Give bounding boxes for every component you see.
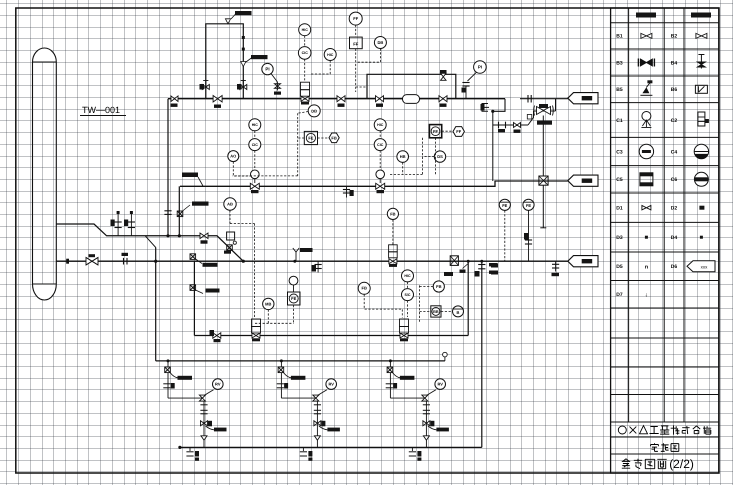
svg-text:FF: FF [433, 129, 438, 134]
control valve CV1 on M [301, 82, 310, 104]
label spec 4BX3/4B [537, 121, 552, 125]
svg-text:C4: C4 [671, 149, 678, 155]
vessel TW-001 [33, 48, 57, 300]
wire lower drain line [493, 124, 528, 126]
svg-text:D1: D1 [616, 206, 623, 212]
svg-text:D5: D5 [616, 264, 623, 270]
signal FEsq right [318, 137, 329, 139]
control valve CV5 on E [400, 319, 409, 341]
legend symbol C3 circle xxx [639, 144, 653, 158]
instrument HIC-4 [374, 119, 386, 131]
wire CV outlet drop x543 [542, 116, 544, 177]
signal SC down [407, 301, 409, 317]
control valve CV3 on C [376, 179, 385, 194]
legend symbol D4 dot [700, 236, 703, 239]
relief valve unit 2 [277, 359, 340, 460]
tick pair on B x125 [122, 253, 129, 265]
signal drop x254 to CV4 [254, 224, 256, 319]
flag spec on branch B1 [203, 263, 218, 267]
signal FFs down [356, 49, 367, 92]
svg-text:HIC: HIC [327, 53, 334, 57]
wire line F [178, 446, 482, 449]
spectacle blind on outlet [528, 95, 531, 103]
signal FElow down [293, 305, 295, 323]
wire line E [194, 335, 468, 337]
wire branch B to E x194 [193, 261, 195, 335]
svg-text:FB: FB [436, 284, 441, 289]
valve45 on branch B1 [190, 254, 202, 264]
svg-text:xxx: xxx [701, 264, 709, 269]
signal BB right [441, 310, 453, 312]
signal FFc-FFs [355, 25, 357, 37]
instrument CIC-3 [374, 139, 386, 151]
instrument HIC-5 [402, 270, 414, 282]
legend symbol C2 tower [698, 112, 709, 126]
title company name [618, 425, 711, 434]
wire drop below box x543 [540, 185, 546, 228]
control valve main outlet [534, 104, 554, 116]
instrument FB on line B [387, 208, 398, 219]
instrument FB hexagon [329, 133, 339, 143]
legend header blobs [636, 13, 711, 18]
signal riser x419 [419, 285, 421, 322]
svg-text:C5: C5 [616, 177, 623, 183]
signal FFsq down [435, 138, 437, 175]
svg-text:FE: FE [526, 203, 531, 208]
drain ticks below B x318 [312, 261, 322, 272]
wire outlet up [555, 99, 557, 111]
actuator ball CV3 [376, 170, 385, 179]
wire riser C to A [178, 186, 180, 236]
signal FFsq-FFhex [442, 130, 453, 132]
instrument HIC-3 [249, 119, 261, 131]
legend symbol D7 anchor [645, 292, 648, 298]
wire branch slant to D riser [145, 236, 156, 248]
control valve CV2 on C [250, 179, 259, 194]
vent ticks below line C [343, 186, 354, 197]
signal across y311 [420, 310, 431, 312]
valve G3O on line A [200, 233, 208, 244]
off-page connector drain [568, 175, 598, 186]
title reference drawing [622, 457, 694, 471]
wire riser B to F x482 [480, 260, 483, 448]
wire PI-1 tap [271, 74, 278, 83]
instrument CIC-1 [298, 47, 311, 60]
gate valve 1B on M [213, 95, 222, 107]
signal across y286 [420, 286, 434, 288]
signal DS left [422, 156, 434, 158]
valve with stem on riser left [200, 81, 210, 90]
legend table grid [611, 8, 719, 473]
svg-text:HB: HB [400, 154, 406, 159]
flag spec MBX3-4B on C [182, 173, 203, 187]
valve on drain x517 [514, 123, 521, 133]
signal DB1 path [356, 49, 380, 63]
svg-text:PI: PI [478, 65, 482, 70]
valve on M near left end [171, 96, 179, 107]
svg-text:CIC: CIC [377, 143, 384, 147]
instrument CIC-2 [249, 139, 261, 151]
legend symbol C1 sphere stand [641, 112, 651, 128]
wire funnel stub [293, 248, 313, 263]
signal across y323 [255, 322, 294, 324]
valve45 on branch B2 [190, 285, 203, 294]
junction box GB on B [444, 256, 458, 276]
riser with ticks A2 [124, 211, 135, 236]
signal box small [227, 232, 237, 244]
valve on bypass top [440, 70, 447, 80]
valve with stem on riser right [237, 81, 247, 90]
instrument FB circle mid [358, 282, 370, 294]
svg-text:DB: DB [311, 108, 317, 113]
block ticks on riser 168 [164, 211, 171, 215]
wire outlet to flag [520, 98, 568, 100]
flag slant to riser 468 [460, 264, 469, 273]
wire line B [56, 259, 568, 264]
instrument FE dome 1 [499, 199, 510, 210]
relief valve unit 1 [163, 359, 226, 460]
actuator ball above FE low [289, 276, 298, 292]
valve on E x217 [210, 330, 221, 342]
instrument FF circle [349, 12, 362, 25]
wire main pipe line M [168, 98, 505, 100]
legend symbol D1 small valve [642, 205, 651, 210]
valve on M x379 [376, 96, 384, 107]
wire riser M to A [167, 99, 169, 236]
instrument FF bold square [429, 125, 441, 138]
drain ticks near flag3 [552, 261, 560, 276]
signal CIC1-valve [304, 59, 306, 81]
legend row labels [616, 34, 677, 298]
svg-text:D2: D2 [671, 206, 678, 212]
instrument FE square mid [304, 131, 317, 144]
instrument OB circle [453, 306, 464, 317]
tick on riser x243 b [242, 48, 245, 51]
svg-text:FB: FB [390, 211, 395, 216]
junction dot B-156 [154, 260, 157, 263]
signal HIC2-CV1 [310, 61, 331, 75]
signal dashed riser x297 [297, 113, 299, 176]
control valve on line B x393 [389, 245, 398, 267]
signal FB down to valve [392, 220, 394, 245]
flag spec on branch B2 [206, 289, 220, 293]
svg-text:C3: C3 [616, 149, 623, 155]
instrument PI-2 [474, 61, 487, 74]
svg-text:C6: C6 [671, 177, 678, 183]
svg-text:DB: DB [378, 40, 384, 45]
valve on M x341 [337, 96, 345, 107]
signal HIC1-CIC1 [304, 36, 306, 47]
svg-text:FF: FF [456, 129, 461, 134]
off-page connector product [568, 93, 598, 104]
root valve PI-2 [462, 83, 470, 99]
root valve PI-1 [274, 82, 281, 95]
instrument FF square [350, 37, 363, 49]
svg-text:HIC: HIC [404, 274, 411, 278]
svg-text:FF: FF [353, 41, 359, 46]
signal AB down [229, 210, 231, 223]
valve on M x443 [439, 96, 447, 107]
svg-text:B4: B4 [671, 60, 678, 66]
wire PI-2 tap [468, 72, 477, 81]
signal CIC2-ball [254, 151, 256, 170]
label TW-001 [80, 105, 126, 116]
legend symbol B1 valve [641, 33, 652, 38]
wire drain drop x492 [492, 111, 494, 125]
inline element left of step [481, 104, 490, 112]
flag specs near riser 482 [491, 264, 498, 275]
svg-text:AO: AO [230, 154, 236, 159]
svg-text:BB: BB [433, 310, 439, 314]
signal DB2 left [298, 112, 309, 114]
block valve pair on drain [498, 122, 506, 133]
wire drain drop x493 [492, 125, 494, 181]
junction dot A-179 [178, 234, 181, 237]
svg-text:RV: RV [328, 382, 334, 387]
instrument FE square low [288, 292, 301, 305]
instrument FE dome 2 [523, 199, 534, 210]
svg-text:D6: D6 [671, 264, 678, 270]
instrument SC circle [402, 289, 414, 301]
instrument AO [228, 151, 239, 162]
legend symbol B6 check valve [695, 85, 707, 93]
relief valve unit 3 [386, 359, 449, 460]
valve45 on riser 179 [177, 205, 190, 217]
wire line A [56, 224, 243, 261]
flag spec MBX3-4B riser [192, 202, 209, 206]
signal FEsq left [298, 137, 305, 139]
legend symbol D2 mark [699, 206, 704, 210]
legend symbol B3 flanged valve [638, 59, 654, 67]
legend symbol B4 vertical valve [697, 55, 705, 69]
instrument AB circle [224, 198, 236, 210]
svg-text:D3: D3 [616, 235, 623, 241]
flag spec H8X3/4B [225, 11, 251, 24]
svg-text:CIC: CIC [302, 51, 309, 55]
svg-text:(2/2): (2/2) [669, 457, 694, 471]
junction dot M drain [491, 110, 494, 113]
svg-text:C1: C1 [616, 118, 623, 124]
svg-text:HIC: HIC [302, 28, 309, 32]
legend symbol D5 n mark [645, 264, 649, 270]
signal HB down [402, 162, 404, 174]
junction box on line C [539, 176, 548, 185]
svg-text:FE: FE [291, 296, 296, 301]
signal HIC4-CIC3 [379, 131, 381, 139]
control valve CV4 on E [252, 319, 261, 341]
svg-text:C2: C2 [671, 118, 678, 124]
tick on riser x243 a [242, 36, 245, 39]
signal across y174 [390, 174, 422, 176]
wire riser A to D x156 [155, 247, 157, 361]
instrument HIC-1 [299, 24, 311, 36]
wire riser B to E x468 [467, 260, 470, 336]
svg-text:FB: FB [331, 135, 336, 140]
instrument HB circle [397, 151, 409, 163]
title kanseizu [651, 443, 679, 451]
gate valve on B at vessel [86, 254, 98, 265]
svg-text:AB: AB [227, 201, 233, 206]
instrument DB-1 [374, 37, 386, 49]
signal dashed across y176 [233, 175, 298, 177]
wire drain slant up [527, 111, 533, 125]
legend symbol B5 angle valve [640, 80, 652, 95]
valve45 on slant AB [224, 245, 232, 254]
wire line C [180, 181, 568, 186]
wire FE2 down [524, 210, 532, 261]
signal MB down [267, 310, 269, 324]
off-page connector atmosphere [568, 256, 598, 267]
actuator ball CV2 [251, 170, 260, 179]
wire line D [156, 360, 445, 362]
wire M step down [493, 99, 505, 112]
signal CIC3-ball [379, 151, 381, 170]
legend symbol D3 dot [645, 236, 648, 239]
vent stub end of D [443, 352, 448, 361]
svg-text:HIC: HIC [377, 123, 384, 127]
svg-text:B2: B2 [671, 34, 678, 40]
svg-text:B5: B5 [616, 87, 623, 93]
wire vent riser left [206, 24, 244, 99]
wire valve line y111 [534, 110, 556, 112]
svg-text:FF: FF [353, 16, 358, 21]
legend symbol C5 hatch square [640, 173, 653, 186]
svg-text:D7: D7 [616, 292, 623, 298]
svg-text:RV: RV [437, 382, 443, 387]
svg-text:B: B [457, 310, 460, 315]
riser with ticks A1 [111, 211, 122, 236]
instrument DB-2 [308, 105, 320, 117]
wire bypass loop [367, 74, 456, 98]
svg-text:PI: PI [265, 67, 269, 72]
instrument DS circle [434, 151, 445, 162]
svg-text:B6: B6 [671, 87, 678, 93]
signal AO path [233, 162, 250, 176]
legend symbol D6 connector flag [687, 261, 715, 272]
svg-text:↓: ↓ [645, 292, 648, 298]
inline strainer oval on M [401, 95, 422, 104]
svg-text:D4: D4 [671, 235, 678, 241]
instrument PI-1 [262, 63, 273, 74]
instrument FB circle 2 [433, 281, 444, 292]
svg-text:B1: B1 [616, 34, 623, 40]
signal FB path to CV5 [364, 294, 402, 317]
instrument HIC-2 [324, 49, 336, 61]
svg-text:HIC: HIC [252, 123, 259, 127]
junction dot A-168 [166, 234, 169, 237]
svg-text:B3: B3 [616, 60, 623, 66]
svg-text:RV: RV [215, 382, 221, 387]
signal riser x422 [421, 138, 423, 175]
svg-text:S/C: S/C [405, 293, 411, 297]
svg-text:DS: DS [437, 154, 443, 159]
svg-text:FE: FE [308, 136, 313, 141]
junction dot B-243 [242, 260, 245, 263]
svg-text:FE: FE [502, 203, 507, 208]
svg-text:TW—001: TW—001 [82, 105, 120, 115]
instrument MB circle [263, 298, 274, 309]
signal across y224 [230, 223, 255, 225]
svg-text:FB: FB [362, 286, 367, 291]
svg-text:MB: MB [265, 301, 271, 306]
legend symbol B2 valve [696, 33, 707, 38]
instrument FF hexagon right [453, 127, 464, 137]
drain ticks below B x482 [475, 263, 498, 277]
svg-text:CIC: CIC [252, 143, 259, 147]
signal HIC3-CIC2 [254, 131, 256, 139]
instrument BB square [431, 306, 441, 317]
signal HIC5-SC [407, 282, 409, 289]
legend symbol C4 circle half [694, 144, 708, 158]
signal FE1 down [504, 210, 506, 261]
legend symbol C6 banded circle [694, 172, 708, 186]
flag spec 4BX3/4B [241, 55, 268, 67]
